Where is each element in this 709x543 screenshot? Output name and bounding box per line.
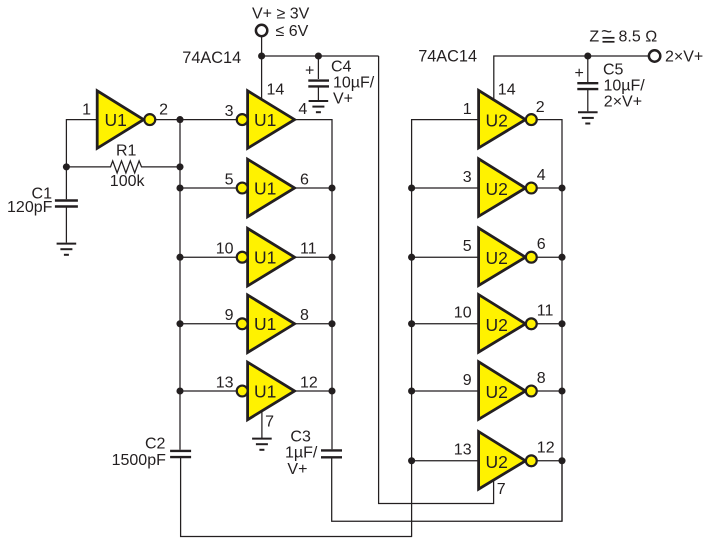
- svg-text:9: 9: [463, 372, 472, 389]
- wire U1 input rail: [179, 120, 181, 450]
- inverter U1 buffer row4 (pins 9/8): [180, 295, 332, 353]
- resistor R1: [66, 143, 180, 190]
- ground C4: [309, 101, 329, 112]
- svg-text:74AC14: 74AC14: [182, 49, 241, 67]
- inverter U2 row2 (pins 3/4): [412, 159, 562, 217]
- svg-text:8: 8: [537, 370, 546, 387]
- svg-text:U1: U1: [254, 110, 276, 130]
- svg-text:9: 9: [225, 307, 234, 324]
- node rail row5: [176, 387, 183, 394]
- svg-text:C5: C5: [603, 61, 624, 78]
- svg-text:U1: U1: [254, 381, 276, 401]
- inverter U2 row5 (pins 9/8): [412, 362, 562, 420]
- svg-text:14: 14: [498, 82, 516, 99]
- capacitor C5: [575, 56, 646, 111]
- svg-text:C4: C4: [331, 58, 352, 75]
- svg-text:1500pF: 1500pF: [112, 452, 166, 469]
- svg-text:+: +: [305, 63, 314, 80]
- wire row1 output: [295, 120, 332, 450]
- svg-text:C2: C2: [145, 436, 166, 453]
- svg-text:4: 4: [537, 167, 546, 184]
- svg-text:11: 11: [300, 241, 317, 258]
- ground U1 pin 7: [252, 439, 272, 450]
- svg-text:V+: V+: [287, 461, 307, 478]
- svg-text:3: 3: [463, 169, 472, 186]
- svg-text:7: 7: [265, 413, 274, 430]
- inverter U1 buffer row5 (pins 13/12): [180, 362, 332, 420]
- svg-text:C3: C3: [290, 428, 311, 445]
- ground C1: [57, 244, 77, 255]
- svg-text:≤ 6V: ≤ 6V: [276, 23, 309, 40]
- capacitor C2: [112, 436, 192, 469]
- terminal 2xV+ output: [649, 50, 660, 61]
- svg-text:U1: U1: [105, 110, 127, 130]
- node C5 junction: [584, 52, 591, 59]
- svg-text:1: 1: [82, 102, 91, 119]
- svg-text:U2: U2: [486, 452, 508, 472]
- wire osc output: [155, 119, 236, 121]
- inverter U1 buffer row2 (pins 5/6): [180, 159, 332, 217]
- inverter U1 buffer row1 (pins 3/4): [237, 91, 295, 149]
- wire C3 bottom to U2 output rail: [332, 457, 562, 521]
- wire U1 pin 14 riser: [261, 56, 263, 99]
- inverter U2 row1 (pins 1/2): [412, 90, 562, 536]
- svg-text:8: 8: [300, 307, 309, 324]
- wire top rail left: [262, 55, 379, 57]
- svg-text:U2: U2: [486, 382, 508, 402]
- svg-text:2: 2: [536, 99, 545, 116]
- node R1 left junction: [63, 163, 70, 170]
- svg-text:1µF/: 1µF/: [285, 445, 318, 462]
- svg-text:U1: U1: [254, 314, 276, 334]
- svg-text:U1: U1: [254, 248, 276, 268]
- wire C2 bottom to U2 input rail: [181, 457, 413, 536]
- node V+ junction: [258, 52, 265, 59]
- svg-text:4: 4: [298, 101, 307, 118]
- svg-text:R1: R1: [116, 143, 137, 160]
- terminal V+ input: [256, 25, 267, 36]
- svg-text:5: 5: [225, 171, 234, 188]
- inverter U1 buffer row3 (pins 10/11): [180, 228, 332, 286]
- svg-text:120pF: 120pF: [7, 199, 53, 216]
- inverter U2 row3 (pins 5/6): [412, 228, 562, 286]
- wire terminal to rail: [261, 36, 263, 56]
- svg-text:V+: V+: [333, 91, 353, 108]
- svg-text:5: 5: [463, 238, 472, 255]
- svg-text:~: ~: [601, 22, 612, 43]
- svg-text:3: 3: [225, 103, 234, 120]
- svg-text:U1: U1: [254, 178, 276, 198]
- svg-text:8.5 Ω: 8.5 Ω: [619, 29, 658, 46]
- svg-text:2×V+: 2×V+: [604, 94, 642, 111]
- node osc output junction: [176, 116, 183, 123]
- svg-text:U2: U2: [486, 111, 508, 131]
- svg-text:14: 14: [267, 82, 285, 99]
- capacitor C4: [305, 56, 375, 108]
- svg-text:74AC14: 74AC14: [418, 48, 477, 66]
- svg-text:U2: U2: [486, 248, 508, 268]
- svg-text:1: 1: [463, 101, 472, 118]
- inverter U2 row6 (pins 13/12): [412, 432, 562, 490]
- svg-text:6: 6: [300, 171, 309, 188]
- svg-text:U2: U2: [486, 179, 508, 199]
- wire osc input: [66, 120, 97, 200]
- node C4 junction: [315, 52, 322, 59]
- wire top rail right: [494, 56, 649, 100]
- svg-text:2: 2: [159, 102, 168, 119]
- svg-text:11: 11: [537, 303, 554, 320]
- svg-text:10µF/: 10µF/: [333, 75, 375, 92]
- node R1 right junction: [176, 163, 183, 170]
- node rail row4: [176, 320, 183, 327]
- svg-text:U2: U2: [486, 315, 508, 335]
- svg-text:12: 12: [537, 440, 555, 457]
- svg-text:6: 6: [537, 236, 546, 253]
- svg-text:Z: Z: [589, 29, 599, 46]
- svg-text:2×V+: 2×V+: [665, 49, 703, 66]
- svg-text:10µF/: 10µF/: [604, 78, 646, 95]
- inverter U2 row4 (pins 10/11): [412, 295, 562, 353]
- svg-text:10: 10: [216, 241, 234, 258]
- svg-text:V+ ≥ 3V: V+ ≥ 3V: [252, 6, 310, 23]
- capacitor C3: [285, 428, 342, 478]
- svg-text:12: 12: [300, 374, 318, 391]
- wire U1 pin 7: [261, 411, 263, 439]
- op U1 oscillator inverter (pins 1/2): [97, 91, 155, 149]
- capacitor C1: [7, 185, 78, 242]
- node rail row2: [176, 184, 183, 191]
- svg-text:13: 13: [216, 374, 234, 391]
- svg-text:7: 7: [497, 481, 506, 498]
- svg-text:+: +: [575, 65, 584, 82]
- wire V+ riser to U2 pin 7 net: [379, 56, 494, 504]
- svg-text:100k: 100k: [110, 173, 146, 190]
- ground C5: [578, 112, 598, 123]
- node rail row3: [176, 254, 183, 261]
- svg-text:13: 13: [454, 442, 472, 459]
- svg-text:10: 10: [454, 305, 472, 322]
